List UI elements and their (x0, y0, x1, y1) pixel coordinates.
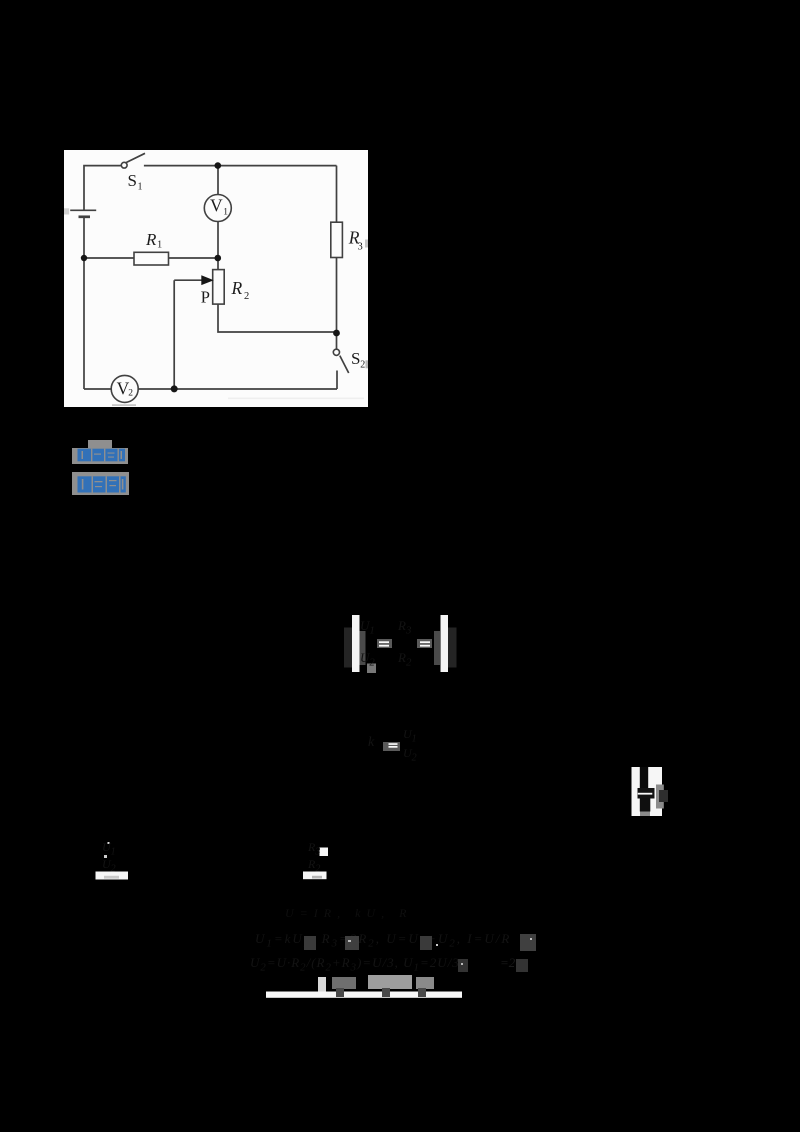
svg-text:2: 2 (244, 291, 249, 302)
svg-text:1: 1 (223, 208, 228, 218)
svg-text:3: 3 (358, 242, 363, 253)
svg-text:R: R (231, 278, 243, 298)
svg-text:2: 2 (128, 389, 133, 399)
svg-text:S: S (351, 349, 360, 368)
svg-text:P: P (201, 288, 210, 307)
svg-text:V: V (210, 196, 223, 216)
svg-text:1: 1 (138, 182, 143, 193)
svg-text:S: S (128, 171, 137, 190)
svg-text:1: 1 (157, 240, 162, 251)
svg-text:R: R (145, 230, 157, 249)
svg-text:2: 2 (360, 360, 365, 371)
